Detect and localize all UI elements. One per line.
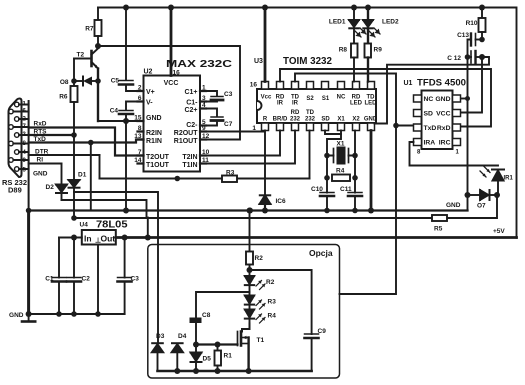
capacitor C9 [305, 334, 319, 371]
wire T2 base drop [73, 59, 75, 82]
svg-text:VCC: VCC [164, 80, 179, 87]
wire DTR drop to R3 line [99, 155, 101, 179]
diode D5 [191, 345, 202, 372]
node TXD junction [393, 123, 399, 129]
node R3 line D4 junction [175, 176, 181, 182]
node R4 right dot [352, 175, 358, 181]
capacitor C1 [52, 238, 66, 315]
node 5V opcja feed dot [145, 235, 151, 241]
pin squares TOIM bottom row [262, 123, 375, 131]
label RS 232 [2, 178, 27, 187]
label O7 [477, 203, 486, 210]
label C7 [224, 121, 233, 128]
wire collector to R1OUT riser [98, 46, 240, 140]
svg-text:X1: X1 [337, 117, 345, 123]
label GND pin5 [33, 171, 48, 178]
svg-text:T1: T1 [257, 337, 265, 344]
svg-text:232: 232 [290, 117, 301, 123]
label IC6 [276, 198, 287, 205]
svg-text:Vcc: Vcc [261, 95, 272, 101]
svg-text:IR1: IR1 [504, 176, 514, 182]
label C5 [111, 78, 120, 85]
svg-text:T1IN: T1IN [182, 162, 197, 169]
node ground rail dots [26, 311, 101, 317]
label R3 led [268, 299, 277, 306]
diode LED R4 [245, 310, 265, 324]
wire C8 branch [196, 292, 250, 318]
label TOIM pin16 [250, 82, 258, 89]
svg-text:R4: R4 [268, 313, 277, 320]
label LED2 [382, 19, 399, 26]
svg-text:R: R [263, 117, 268, 123]
svg-text:R4: R4 [336, 168, 345, 175]
svg-text:C3: C3 [131, 276, 140, 283]
node O8 left dot [71, 78, 77, 84]
svg-text:D5: D5 [203, 356, 212, 363]
svg-text:LED: LED [365, 101, 378, 107]
label C1 [45, 276, 54, 283]
label U4 [80, 222, 89, 229]
label R5 [434, 226, 443, 233]
svg-text:X2: X2 [352, 117, 360, 123]
svg-text:IC6: IC6 [276, 198, 287, 205]
label GND near O7 [446, 202, 461, 209]
wire TOIM GND column [370, 131, 373, 211]
svg-text:R2OUT: R2OUT [174, 130, 198, 137]
node O8 right dot [95, 78, 101, 84]
svg-text:IRA: IRA [424, 140, 436, 147]
svg-text:D3: D3 [156, 333, 165, 340]
svg-text:V+: V+ [146, 89, 155, 96]
label T2 [77, 52, 85, 59]
label DTR [35, 149, 49, 156]
label C4 [110, 108, 119, 115]
diode IR1 [480, 167, 504, 196]
resistor R7 [95, 8, 102, 47]
wire IRA loop to IR1 [410, 142, 499, 166]
wire TOIM VCC column [264, 8, 267, 82]
label C10 [311, 186, 323, 193]
node R2 bottom dot [247, 267, 253, 273]
pin stubs MAX232 right [200, 91, 206, 164]
svg-text:GND: GND [364, 117, 378, 123]
label R9 [374, 47, 383, 54]
node D1 column regulator input junction [71, 235, 77, 241]
node TFDS GND dot [465, 96, 470, 101]
node gate D5 dot [193, 342, 199, 348]
svg-text:D1: D1 [78, 172, 87, 179]
capacitor C2 [67, 238, 81, 315]
node C4 GND junction [123, 118, 129, 124]
svg-text:C2+: C2+ [184, 107, 197, 114]
label TFDS pin8 [417, 150, 421, 156]
wire R2 node to C9 [250, 270, 312, 334]
pin stubs MAX232 left [138, 91, 144, 164]
svg-text:NC: NC [424, 96, 434, 103]
svg-text:6: 6 [138, 95, 142, 102]
svg-text:In: In [84, 234, 92, 244]
svg-text:BR/D: BR/D [273, 117, 288, 123]
node O7 right dot [494, 192, 500, 198]
wire DTR line [29, 154, 100, 156]
wire TxD line to R1IN [29, 140, 144, 143]
capacitor C10 [320, 193, 334, 211]
label regulator gnd symbol [95, 237, 101, 245]
wire regulator gnd pin [97, 245, 99, 315]
label R3 [226, 170, 235, 177]
wire RTS line [29, 134, 74, 136]
node opcja rail dots [174, 368, 251, 374]
svg-text:R1: R1 [224, 353, 233, 360]
svg-text:U4: U4 [80, 222, 89, 229]
svg-text:C4: C4 [110, 108, 119, 115]
svg-text:8: 8 [138, 125, 142, 132]
label D89 [8, 186, 22, 195]
wire R pin to MAX232 R2OUT and diode IC6 [200, 131, 265, 196]
svg-text:R8: R8 [339, 47, 348, 54]
wire R3 line [100, 178, 310, 180]
resistor R3 [222, 176, 237, 183]
capacitor C13 [468, 34, 483, 58]
label C13 [457, 32, 469, 39]
wire Opcja ground rail [158, 370, 312, 373]
svg-text:LED2: LED2 [382, 19, 399, 26]
ground symbol [22, 314, 35, 322]
svg-text:R1IN: R1IN [146, 138, 162, 145]
wire TXD drop to Opcja [340, 126, 397, 295]
wire RD-IR to TFDS RXD [280, 69, 491, 127]
label R4 [336, 168, 345, 175]
wire BRD pin to MAX232 T2IN [200, 131, 280, 156]
pin circles DB9 [9, 102, 19, 171]
svg-text:1: 1 [252, 125, 256, 132]
node crystal right dot [352, 153, 358, 159]
label C3a [131, 276, 140, 283]
svg-text:GND: GND [9, 312, 24, 319]
svg-text:14: 14 [134, 157, 142, 164]
svg-text:16: 16 [250, 82, 258, 89]
node ground bus dots [26, 208, 374, 214]
wire RD232 pin to MAX232 T1IN [200, 131, 295, 164]
svg-text:GND: GND [435, 96, 450, 103]
svg-text:T1OUT: T1OUT [146, 162, 170, 169]
label U2 MAX232 texts [134, 58, 232, 169]
diode D4 [172, 343, 183, 371]
svg-text:D4: D4 [178, 333, 187, 340]
node C12 left dot [465, 54, 471, 60]
node D1 column 218 junction [71, 215, 77, 221]
label TFDS pin1 [456, 150, 460, 156]
svg-text:C8: C8 [202, 312, 211, 319]
svg-text:R2: R2 [255, 255, 264, 262]
wire MAX GND column to ground bus [125, 121, 127, 211]
node 5V out dot [122, 235, 128, 241]
resistor R2 [246, 211, 253, 271]
capacitor C3a [118, 238, 132, 315]
label U3 [254, 58, 263, 65]
svg-text:D89: D89 [8, 186, 22, 195]
node TxD tap dot [88, 140, 94, 146]
diode D2 [56, 164, 67, 201]
label TOIM pin1 [252, 125, 256, 132]
svg-text:IR: IR [277, 101, 284, 107]
svg-text:12: 12 [202, 133, 210, 140]
svg-text:R10: R10 [466, 20, 478, 27]
wire ground bus [29, 209, 468, 211]
label U1 [404, 80, 413, 87]
svg-text:GND: GND [146, 115, 162, 122]
wire ground rail [29, 313, 125, 315]
svg-text:+5V: +5V [493, 228, 505, 235]
pin squares TFDS right [453, 95, 461, 146]
svg-text:DTR: DTR [35, 149, 49, 156]
svg-text:C5: C5 [111, 78, 120, 85]
label C11 [340, 186, 352, 193]
svg-text:2: 2 [138, 85, 142, 92]
label TFDS pin names [424, 96, 451, 147]
wire GND pin to C12 loop [375, 57, 490, 124]
node crystal left dot [324, 153, 330, 159]
label D4 [178, 333, 187, 340]
svg-text:T2: T2 [77, 52, 85, 59]
svg-text:O7: O7 [477, 203, 486, 210]
svg-text:R2IN: R2IN [146, 130, 162, 137]
wire TFDS GND stub [461, 98, 468, 100]
wire GND bus vertical to ground rail [27, 211, 30, 315]
wire DB9 pin bus [13, 101, 28, 211]
label IR1 [504, 176, 514, 182]
svg-text:LED: LED [350, 101, 363, 107]
svg-text:232: 232 [305, 117, 316, 123]
connector RS232 DB9 shell [9, 99, 22, 178]
svg-text:TxD: TxD [424, 125, 437, 132]
node IC6 bus dot [262, 208, 268, 214]
diode LED2 [363, 8, 380, 44]
svg-text:V-: V- [146, 100, 153, 107]
diode O7 [468, 190, 498, 200]
capacitor C12 [468, 51, 484, 63]
voltage regulator U4 78L05 [82, 230, 116, 245]
svg-text:R7: R7 [85, 26, 94, 33]
label X1 [337, 141, 345, 148]
svg-text:C7: C7 [224, 121, 233, 128]
svg-text:S2: S2 [306, 96, 314, 102]
svg-text:C11: C11 [340, 186, 352, 193]
svg-text:C2-: C2- [186, 122, 198, 129]
svg-text:VCC: VCC [436, 111, 450, 118]
svg-text:SD: SD [424, 111, 434, 118]
diode IC6 [260, 195, 271, 210]
svg-text:16: 16 [173, 70, 181, 77]
svg-text:C3: C3 [224, 91, 233, 98]
label TFDS 4500 [417, 78, 466, 89]
wire VCC pin16 column [170, 8, 173, 76]
wire 218 line to R5 [74, 195, 497, 218]
node rail junction dots [123, 5, 485, 11]
label R8 [339, 47, 348, 54]
diode D1 [69, 135, 80, 218]
svg-text:R3: R3 [226, 170, 235, 177]
svg-text:IRC: IRC [439, 140, 451, 147]
node C12 right dot [479, 54, 485, 60]
resistor R6 [71, 81, 78, 135]
capacitor C7 [200, 109, 223, 126]
svg-text:15: 15 [134, 115, 142, 122]
diode LED R2 [245, 270, 265, 296]
wire crystal columns [327, 156, 355, 193]
svg-text:IR: IR [292, 101, 299, 107]
wire X1 pin to crystal left column [327, 131, 341, 156]
label R4 led [268, 313, 277, 320]
node gate R1 dot [215, 342, 221, 348]
svg-text:TxD: TxD [34, 136, 47, 143]
svg-text:C1+: C1+ [184, 89, 197, 96]
wire C13 column to TFDS GND and O7 [467, 57, 469, 211]
node C13 right dot [479, 37, 485, 43]
svg-text:C10: C10 [311, 186, 323, 193]
svg-text:RD: RD [291, 110, 300, 116]
wire T2 emitter to MAX232 GND pin15 [98, 120, 144, 122]
pin squares TFDS left [414, 95, 422, 146]
svg-text:R1OUT: R1OUT [174, 138, 198, 145]
svg-text:U3: U3 [254, 58, 263, 65]
wire T1 gate line [196, 343, 238, 345]
IC U3 TOIM3232 body [257, 89, 376, 123]
svg-text:RxD: RxD [34, 121, 47, 128]
wire segment D1 to D3 column [74, 192, 158, 342]
transistor T1 mosfet [238, 324, 250, 372]
pin squares TOIM top row [262, 82, 375, 90]
wire 5V rail [116, 236, 517, 239]
wire TD-IR to TFDS TXD [295, 74, 414, 126]
op-amp U2 MAX232 body [144, 76, 201, 172]
wire C12 column to TFDS VCC [461, 57, 482, 113]
svg-text:RxD: RxD [437, 125, 451, 132]
svg-text:RI: RI [37, 157, 44, 164]
diode LED1 [349, 8, 366, 44]
label R2 resistor [255, 255, 264, 262]
svg-text:U1: U1 [404, 80, 413, 87]
node collector junction [95, 43, 101, 49]
crystal X1 [327, 147, 355, 165]
wire RI line [29, 163, 62, 165]
label D3 [156, 333, 165, 340]
node O7 left dot [465, 192, 471, 198]
capacitor C3 [200, 91, 223, 102]
svg-text:D2: D2 [46, 184, 55, 191]
svg-text:S1: S1 [322, 96, 330, 102]
label R10 [466, 20, 478, 27]
label O8 [60, 79, 69, 86]
svg-text:U2: U2 [144, 69, 153, 76]
svg-text:TOIM 3232: TOIM 3232 [283, 56, 332, 67]
resistor R9 [365, 44, 372, 82]
svg-text:R3: R3 [268, 299, 277, 306]
svg-text:X1: X1 [337, 141, 345, 148]
diode O8 [74, 77, 98, 86]
wire RxD line to T2OUT [29, 128, 144, 156]
label DB9 pin numbers [23, 102, 27, 174]
capacitor C11 [348, 193, 362, 211]
label TxD [34, 136, 47, 143]
wire opcja feed [147, 218, 149, 238]
node R4 left dot [324, 175, 330, 181]
svg-text:T2OUT: T2OUT [146, 154, 170, 161]
node R2 bus dot [247, 208, 253, 214]
svg-text:C1: C1 [45, 276, 54, 283]
label T1 [257, 337, 265, 344]
svg-text:NC: NC [337, 95, 346, 101]
wire segment D2 cathode jog [62, 200, 147, 218]
label LED1 [329, 19, 346, 26]
svg-text:R5: R5 [434, 226, 443, 233]
label GND rail [9, 312, 24, 319]
svg-text:R2: R2 [266, 279, 275, 286]
svg-text:R6: R6 [59, 94, 68, 101]
resistor R10 [479, 8, 486, 40]
svg-text:TD: TD [306, 110, 315, 116]
svg-text:GND: GND [33, 171, 48, 178]
svg-text:78L05: 78L05 [96, 220, 128, 231]
label C9 [318, 328, 327, 335]
svg-text:Opcja: Opcja [309, 248, 333, 258]
svg-text:GND: GND [446, 202, 461, 209]
svg-text:C9: C9 [318, 328, 327, 335]
svg-text:C13: C13 [457, 32, 469, 39]
label RxD [34, 121, 47, 128]
label D5 [203, 356, 212, 363]
diode LED R3 [245, 296, 265, 310]
svg-text:C2: C2 [82, 276, 91, 283]
svg-text:O8: O8 [60, 79, 69, 86]
label D2 [46, 184, 55, 191]
resistor R8 [351, 44, 358, 82]
wire top VCC rail [98, 8, 517, 238]
label Opcja [309, 248, 333, 258]
label TOIM 3232 [283, 56, 332, 67]
label RI [37, 157, 44, 164]
diode D3 [152, 343, 163, 371]
label RTS [34, 129, 48, 136]
resistor R1 [215, 345, 222, 372]
resistor R4 [332, 175, 350, 182]
wire TxD tap down to ground bus [90, 143, 92, 211]
label C8 [202, 312, 211, 319]
svg-text:TFDS 4500: TFDS 4500 [417, 78, 466, 89]
label R6 [59, 94, 68, 101]
label 78L05 [96, 220, 128, 231]
svg-text:SD: SD [321, 117, 330, 123]
label In [84, 234, 92, 244]
capacitor C4 [119, 102, 144, 122]
label C3 [224, 91, 233, 98]
label Out [101, 234, 116, 244]
label D1 [78, 172, 87, 179]
label C12 [447, 55, 461, 62]
transistor T2 [74, 49, 98, 122]
wire X2 pin to crystal right column [354, 131, 356, 156]
label C2 [82, 276, 91, 283]
svg-text:MAX 232C: MAX 232C [166, 58, 233, 70]
label TOIM top pin names [261, 95, 378, 107]
capacitor C5 [119, 8, 144, 92]
wire regulator input line [59, 237, 82, 239]
svg-text:T2IN: T2IN [182, 154, 197, 161]
resistor R5 [432, 215, 447, 221]
label +5V [493, 228, 505, 235]
svg-text:LED1: LED1 [329, 19, 346, 26]
wire TD232 pin to R3 line [309, 131, 311, 179]
